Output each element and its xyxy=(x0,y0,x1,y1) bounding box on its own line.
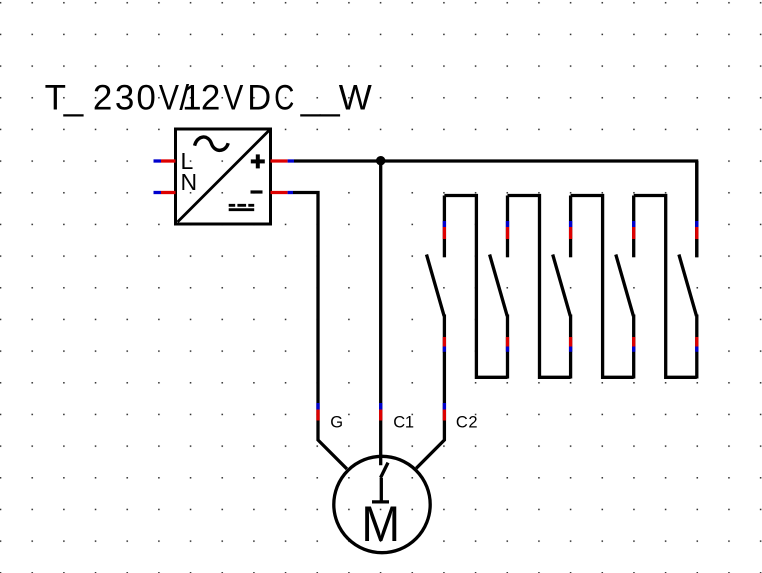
power supply T1 body xyxy=(176,129,271,224)
wire link S3 top to S4 bottom xyxy=(571,196,634,378)
wire minus to motor G xyxy=(293,193,347,469)
svg-text:230: 230 xyxy=(93,79,156,118)
switch S4 blade xyxy=(616,255,634,317)
wire plus rail top xyxy=(294,159,698,162)
pin N xyxy=(154,191,176,194)
motor M1 letter M xyxy=(361,496,400,552)
pin G mark xyxy=(316,403,319,421)
svg-text:/12: /12 xyxy=(179,79,220,118)
svg-text:V: V xyxy=(223,77,243,117)
pin C1 mark xyxy=(379,403,382,421)
svg-text:D: D xyxy=(247,79,271,118)
pin L xyxy=(154,159,176,162)
switch S1 blade xyxy=(427,255,445,317)
motor M1 internal contact xyxy=(372,463,389,502)
switch S1 top pin xyxy=(443,196,446,258)
switch S2 top pin xyxy=(506,196,509,258)
pin minus xyxy=(271,191,294,194)
wire link S1 top to S2 bottom xyxy=(444,196,507,378)
switch S1 bottom pin xyxy=(443,315,446,353)
switch S2 blade xyxy=(490,255,508,317)
junction node xyxy=(376,156,386,166)
motor M1 body xyxy=(334,456,430,552)
switch S5 blade xyxy=(679,255,697,317)
svg-text:C2: C2 xyxy=(456,414,478,432)
svg-text:C: C xyxy=(274,77,294,117)
power supply DC symbol xyxy=(229,205,255,209)
switch S4 bottom pin xyxy=(632,315,635,379)
wire link S2 top to S3 bottom xyxy=(508,196,571,378)
svg-text:V: V xyxy=(159,77,179,117)
switch S2 bottom pin xyxy=(506,315,509,379)
pin C2 mark xyxy=(443,403,446,421)
wire link S4 top to S5 bottom xyxy=(634,196,697,378)
switch S4 top pin xyxy=(632,196,635,258)
switch S3 blade xyxy=(553,255,571,317)
svg-text:M: M xyxy=(361,496,400,552)
svg-text:C1: C1 xyxy=(393,414,414,432)
switch S5 bottom pin xyxy=(695,315,698,379)
label minus xyxy=(251,190,263,193)
switch S3 top pin xyxy=(569,196,572,258)
switch S5 top pin xyxy=(695,161,698,257)
svg-text:N: N xyxy=(181,169,198,195)
svg-text:__W: __W xyxy=(300,79,372,118)
wire junction to motor C1 xyxy=(379,161,382,465)
wire right rail down to S5 xyxy=(695,161,698,257)
label plus xyxy=(251,154,265,168)
svg-text:G: G xyxy=(330,414,343,432)
wire S1 bottom to motor C2 xyxy=(416,352,444,468)
svg-text:T_: T_ xyxy=(45,79,84,118)
title label T_ 230V/12V DC __W xyxy=(45,77,372,117)
pin plus xyxy=(271,159,295,162)
switch S3 bottom pin xyxy=(569,315,572,379)
